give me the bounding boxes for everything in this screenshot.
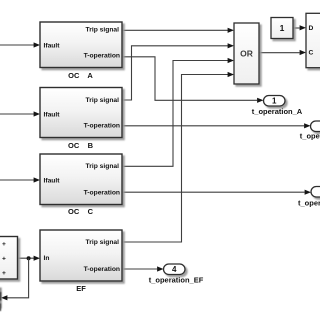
subsystem OC C bbox=[40, 154, 122, 216]
svg-text:OC B: OC B bbox=[68, 141, 94, 150]
svg-text:t_operation_B: t_operation_B bbox=[300, 132, 320, 141]
outport 2 t_operation_B (cut off at right edge) bbox=[300, 121, 320, 141]
svg-text:+: + bbox=[2, 241, 6, 248]
svg-text:T-operation: T-operation bbox=[84, 189, 120, 196]
subsystem OC B bbox=[40, 88, 122, 151]
svg-text:t_operation_C: t_operation_C bbox=[298, 198, 320, 207]
svg-text:1: 1 bbox=[272, 97, 277, 106]
svg-text:EF: EF bbox=[76, 284, 86, 293]
svg-text:Trip signal: Trip signal bbox=[86, 26, 120, 33]
wire input Ifault to OC B bbox=[0, 111, 40, 116]
subsystem OC A bbox=[40, 22, 122, 80]
svg-text:1: 1 bbox=[280, 23, 285, 33]
wire OC B T-operation to outport 2 bbox=[122, 123, 311, 128]
wire input Ifault to OC C bbox=[0, 177, 40, 182]
wire input Ifault to OC A bbox=[0, 42, 40, 47]
wire EF T-operation to outport 4 bbox=[122, 266, 164, 271]
svg-text:t_operation_A: t_operation_A bbox=[252, 107, 303, 116]
outport 1 t_operation_A bbox=[252, 96, 303, 117]
svg-text:+: + bbox=[2, 256, 6, 263]
outport 3 t_operation_C (cut off at right edge) bbox=[298, 187, 320, 208]
wire OC A Trip signal to OR input 1 bbox=[122, 28, 234, 33]
outport 4 t_operation_EF bbox=[149, 264, 204, 285]
wire OC C Trip signal to OR input 3 bbox=[122, 58, 234, 166]
svg-text:OC A: OC A bbox=[68, 71, 93, 80]
svg-text:OR: OR bbox=[240, 49, 253, 59]
wire Constant 1 to D input of latch bbox=[293, 25, 306, 30]
svg-text:+: + bbox=[2, 270, 6, 277]
subsystem EF bbox=[40, 230, 122, 293]
svg-text:T-operation: T-operation bbox=[84, 52, 120, 59]
svg-text:Trip signal: Trip signal bbox=[86, 239, 120, 246]
wire OC C T-operation to outport 3 bbox=[122, 190, 311, 195]
svg-text:Trip signal: Trip signal bbox=[86, 97, 120, 104]
svg-text:T-operation: T-operation bbox=[84, 122, 120, 129]
constant 1 bbox=[271, 18, 293, 39]
svg-text:D: D bbox=[309, 25, 314, 32]
logical operator OR bbox=[234, 23, 259, 84]
svg-text:C: C bbox=[309, 49, 314, 56]
D latch block (cut off at right edge) bbox=[306, 13, 320, 67]
wire feedback branch to left edge terminator bbox=[1, 258, 29, 300]
wire OC A T-operation to outport 1 bbox=[122, 57, 264, 103]
svg-text:OC C: OC C bbox=[68, 207, 94, 216]
sum block (cut off at left edge) bbox=[0, 237, 18, 280]
svg-text:Ifault: Ifault bbox=[44, 177, 61, 184]
svg-text:Ifault: Ifault bbox=[44, 42, 61, 49]
svg-text:In: In bbox=[44, 255, 50, 262]
svg-text:Trip signal: Trip signal bbox=[86, 163, 120, 170]
junction dot on Sum output bbox=[27, 256, 31, 260]
terminator blob cut off at left edge bbox=[0, 288, 2, 312]
wire OR output to C input of latch bbox=[259, 50, 306, 55]
svg-text:4: 4 bbox=[172, 265, 177, 274]
wire EF Trip signal to OR input 4 bbox=[122, 72, 234, 242]
wire Sum output to EF In bbox=[18, 256, 41, 261]
wire OC B Trip signal to OR input 2 bbox=[122, 43, 234, 100]
svg-text:t_operation_EF: t_operation_EF bbox=[149, 276, 204, 285]
svg-text:Ifault: Ifault bbox=[44, 111, 61, 118]
svg-text:T-operation: T-operation bbox=[84, 266, 120, 273]
